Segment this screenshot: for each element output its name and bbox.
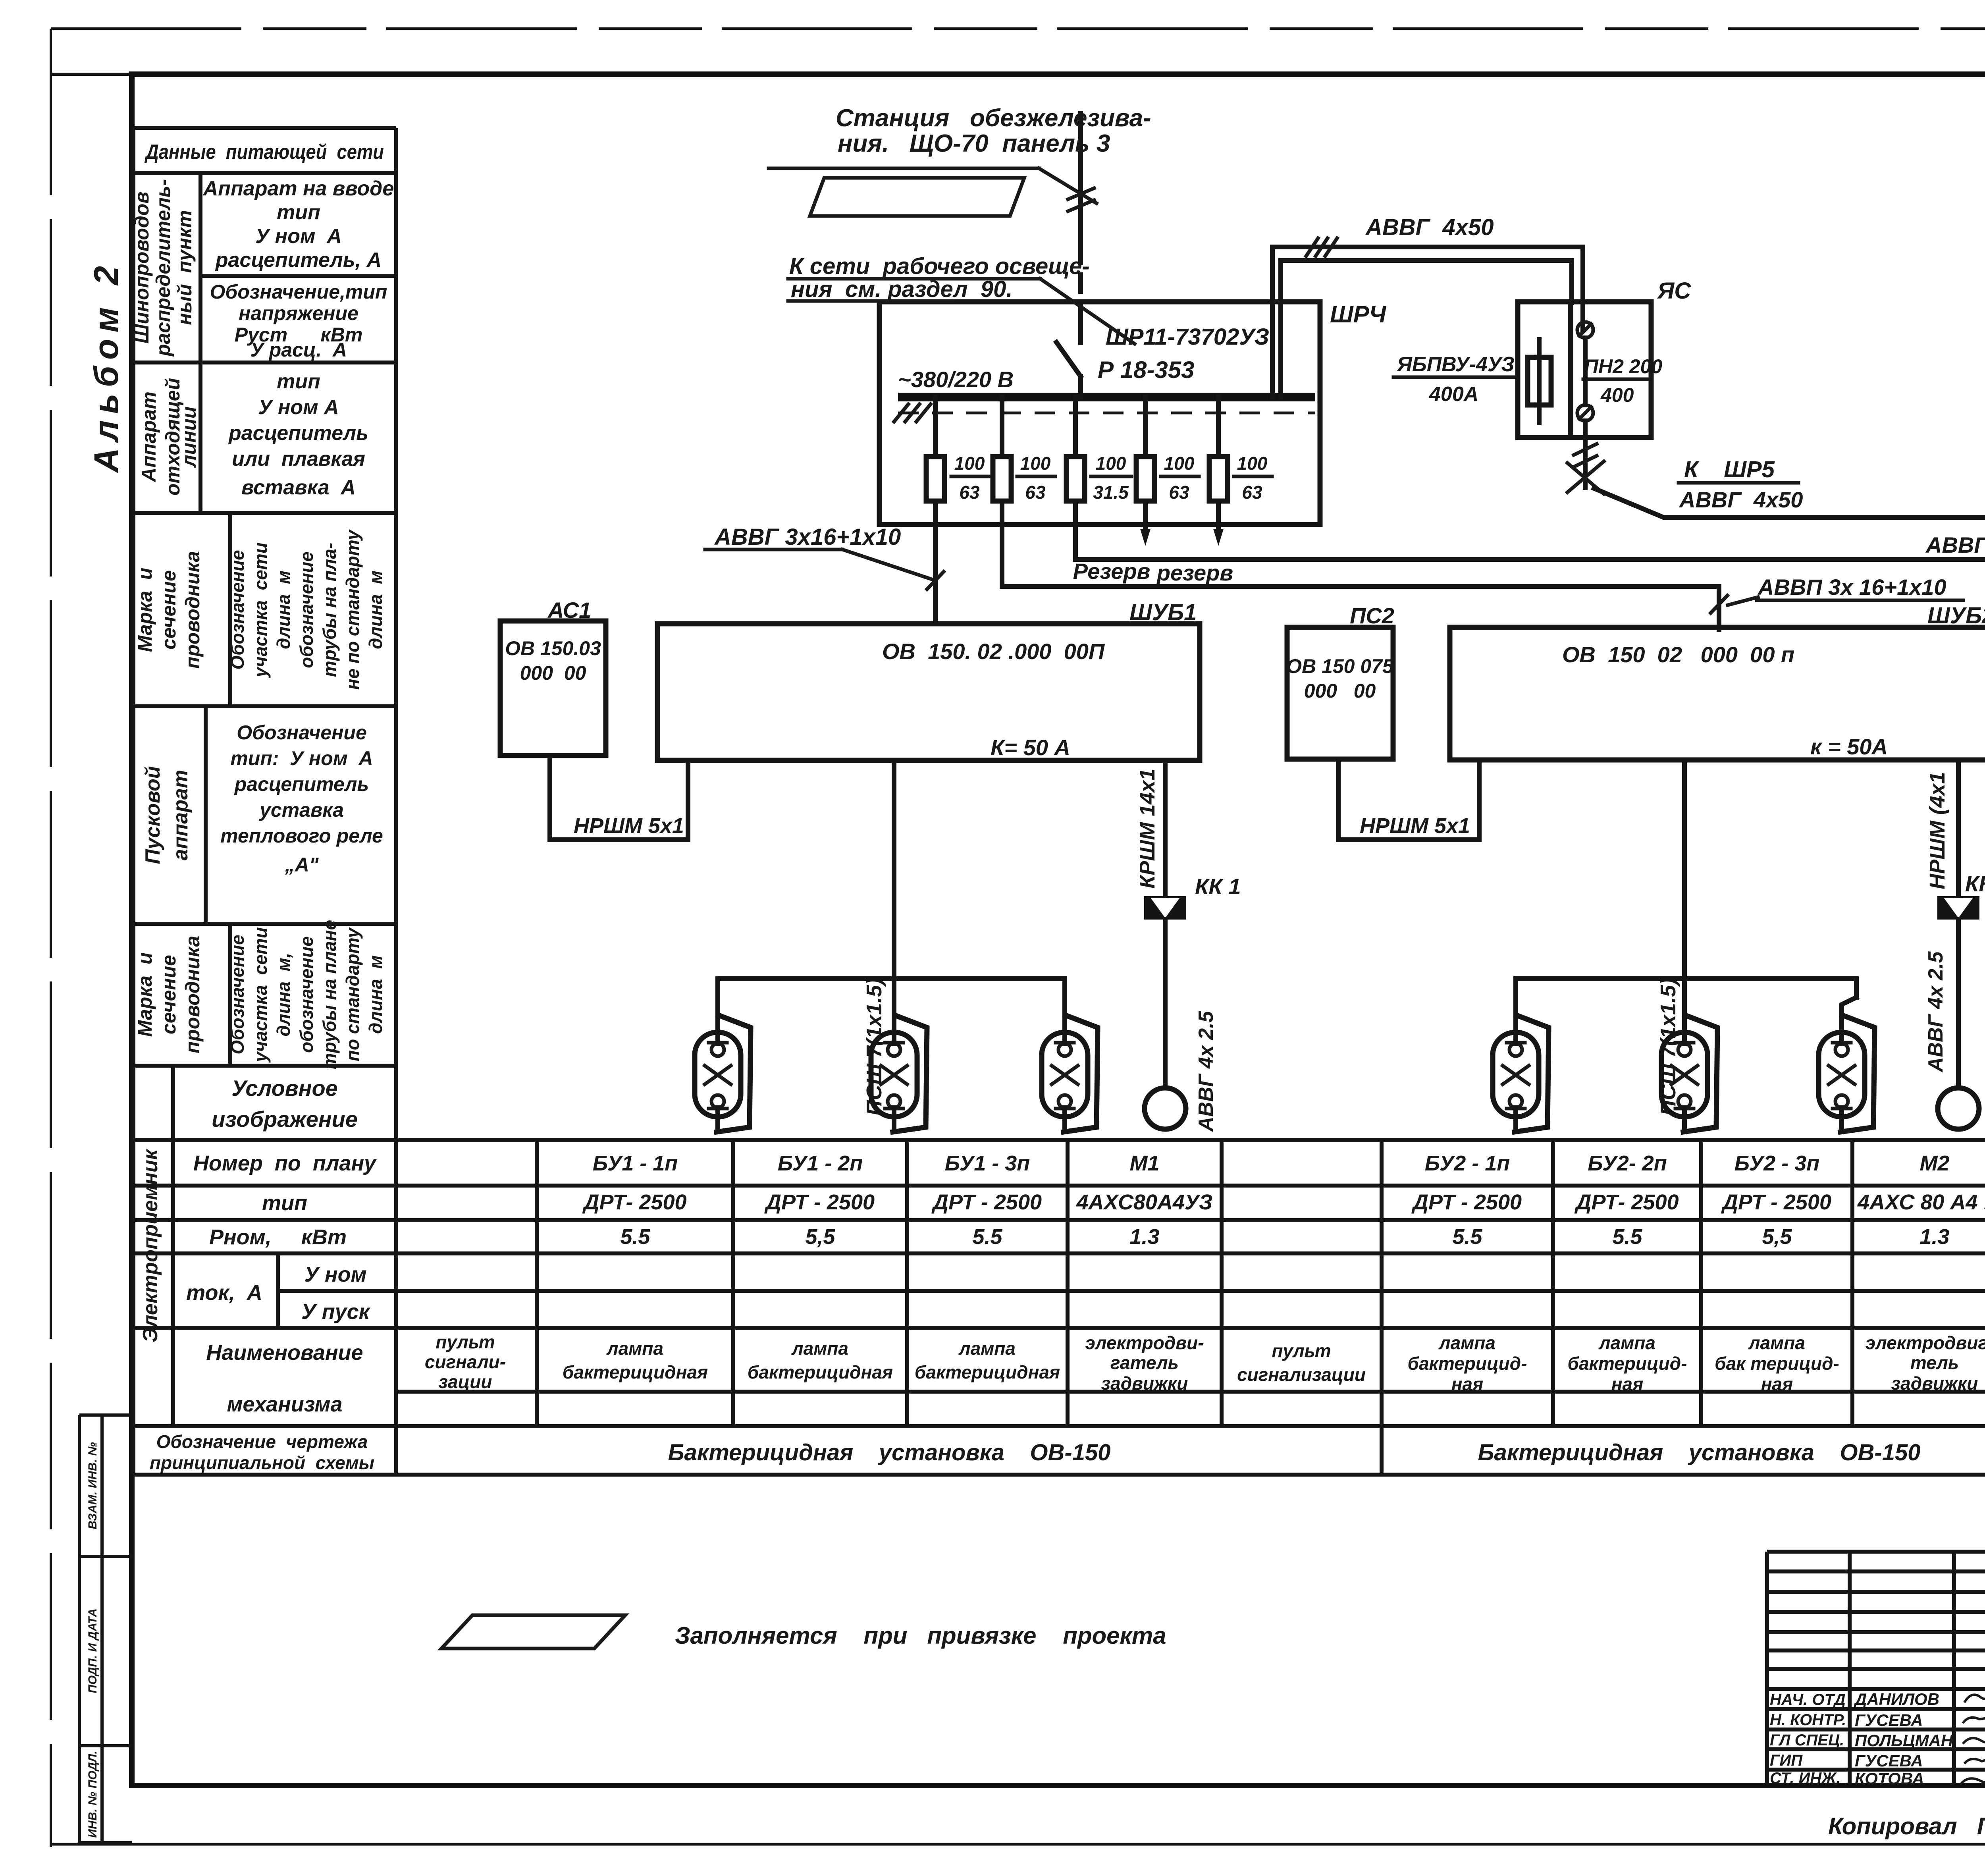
svg-text:не по стандарту: не по стандарту	[342, 529, 363, 690]
fuse 3 rating 100/31.5	[1093, 453, 1129, 503]
svg-text:бактерицид-: бактерицид-	[1407, 1353, 1527, 1374]
svg-text:АВВГ 4х2.5: АВВГ 4х2.5	[1925, 532, 1985, 557]
svg-text:по стандарту: по стандарту	[342, 927, 363, 1061]
svg-text:НРШМ (4х1: НРШМ (4х1	[1925, 772, 1949, 889]
svg-text:ПС2: ПС2	[1350, 603, 1394, 628]
lamp drop 6	[1842, 997, 1856, 1014]
svg-text:63: 63	[1169, 482, 1189, 503]
svg-text:длина м: длина м	[365, 571, 386, 649]
lamp drop 4	[1513, 979, 1518, 1014]
svg-text:4АХС 80 А4 УЗ: 4АХС 80 А4 УЗ	[1857, 1190, 1985, 1214]
terminal top	[1577, 322, 1593, 338]
svg-text:задвижки: задвижки	[1891, 1373, 1978, 1394]
svg-text:БУ2 - 3п: БУ2 - 3п	[1734, 1151, 1820, 1175]
svg-text:4АХС80А4УЗ: 4АХС80А4УЗ	[1076, 1190, 1213, 1214]
svg-text:Электроприемник: Электроприемник	[139, 1148, 162, 1342]
crossed arrows at cable end	[1567, 461, 1604, 494]
svg-text:КК 1: КК 1	[1195, 874, 1241, 899]
incoming feeder from ЩО-70	[1078, 113, 1083, 343]
svg-text:длина м: длина м	[365, 955, 386, 1034]
svg-text:лампа: лампа	[606, 1338, 663, 1359]
svg-text:БУ1 - 3п: БУ1 - 3п	[945, 1151, 1030, 1175]
lamp drop 1	[715, 979, 720, 1014]
wire: feeder to РТ301 (horizontal run)	[1075, 559, 1985, 656]
svg-text:СТ. ИНЖ.: СТ. ИНЖ.	[1770, 1770, 1840, 1787]
wire НРШМ 5х1 loop ПС2-ШУБ2	[1338, 759, 1479, 840]
svg-text:лампа: лампа	[1438, 1332, 1495, 1353]
svg-text:Резерв: Резерв	[1073, 559, 1151, 584]
svg-text:проводника: проводника	[181, 936, 204, 1054]
svg-text:тип: тип	[277, 370, 320, 393]
svg-text:М2: М2	[1919, 1151, 1949, 1175]
svg-text:сигнали-: сигнали-	[425, 1352, 506, 1372]
svg-text:Заполняется при привязке: Заполняется при привязке проекта	[675, 1622, 1166, 1649]
lamp БУ2-3п	[1819, 1012, 1875, 1132]
svg-text:длина м: длина м	[273, 571, 294, 649]
leader line from station note	[769, 167, 1039, 170]
phase slashes on busbar	[894, 404, 931, 422]
svg-text:5.5: 5.5	[620, 1225, 650, 1249]
lamp drop 3	[1062, 979, 1067, 1014]
svg-text:Р 18-353: Р 18-353	[1098, 357, 1195, 383]
cell: Обозначение тип: Уном А расцепитель уставка теплового реле А	[220, 721, 383, 876]
svg-text:напряжение: напряжение	[239, 302, 358, 324]
svg-text:ШРЧ: ШРЧ	[1330, 301, 1387, 328]
svg-text:ная: ная	[1611, 1374, 1643, 1394]
wire blade to busbar	[1078, 376, 1083, 397]
fuse ШРЧ-5 (reserve)	[1209, 397, 1228, 546]
svg-text:уставка: уставка	[258, 799, 344, 821]
svg-text:бактерицидная: бактерицидная	[915, 1362, 1060, 1382]
svg-text:АВВГ 3х16+1х10: АВВГ 3х16+1х10	[714, 524, 901, 550]
rotated label: Аппарат отходящей линии	[138, 378, 200, 496]
svg-text:длина м,: длина м,	[273, 953, 294, 1037]
cable mark on ШУБ2 feeder	[1711, 596, 1727, 613]
motor М2	[1938, 1088, 1979, 1129]
svg-text:бак терицид-: бак терицид-	[1715, 1353, 1839, 1374]
box ПС2	[1287, 627, 1393, 759]
stamp role labels	[1770, 1691, 1846, 1787]
svg-text:„А": „А"	[285, 854, 319, 876]
svg-text:Копировал Подлевская: Копировал Подлевская	[1828, 1813, 1985, 1839]
lamp branch БУ1	[718, 976, 1065, 981]
svg-text:АВВГ 4х 2.5: АВВГ 4х 2.5	[1924, 951, 1947, 1073]
svg-text:ГУСЕВА: ГУСЕВА	[1855, 1711, 1923, 1729]
svg-text:сечение: сечение	[158, 955, 180, 1034]
svg-text:Обозначение: Обозначение	[227, 935, 248, 1054]
svg-text:ДРТ - 2500: ДРТ - 2500	[1721, 1190, 1831, 1214]
svg-text:ДАНИЛОВ: ДАНИЛОВ	[1854, 1690, 1939, 1708]
cabinet ШРЧ box	[879, 302, 1320, 524]
svg-text:БУ1 - 2п: БУ1 - 2п	[778, 1151, 863, 1175]
svg-text:бактерицидная: бактерицидная	[748, 1362, 893, 1382]
svg-text:100: 100	[954, 453, 985, 474]
row Обозначение чертежа values	[668, 1436, 1985, 1465]
svg-text:~380/220 В: ~380/220 В	[898, 367, 1014, 392]
svg-text:резерв: резерв	[1156, 560, 1233, 585]
wire КРШМ 14х1 from ШУБ1	[1163, 760, 1168, 896]
row Наименование values	[425, 1332, 1985, 1396]
svg-text:Данные питающей сети: Данные питающей сети	[145, 141, 384, 164]
wire К ШР5	[1594, 488, 1985, 517]
svg-text:Условное: Условное	[231, 1076, 338, 1101]
fuse 2 rating 100/63	[1020, 453, 1051, 503]
svg-text:НРШМ 5х1: НРШМ 5х1	[574, 814, 684, 838]
svg-text:ная: ная	[1761, 1374, 1793, 1394]
svg-text:тип: тип	[262, 1191, 307, 1215]
lamp drop 5	[1682, 979, 1687, 1014]
svg-text:сигнализации: сигнализации	[1237, 1364, 1366, 1385]
svg-text:АВВГ 4х 2.5: АВВГ 4х 2.5	[1195, 1010, 1218, 1132]
svg-text:400А: 400А	[1429, 383, 1478, 406]
svg-text:АС1: АС1	[547, 598, 591, 623]
svg-text:трубы на плане: трубы на плане	[319, 920, 340, 1069]
lamp БУ1-3п	[1042, 1012, 1098, 1132]
svg-text:ПОДП. И ДАТА: ПОДП. И ДАТА	[86, 1608, 99, 1693]
left margin stamp strip	[79, 1415, 132, 1843]
svg-text:участка сети: участка сети	[250, 927, 271, 1063]
svg-text:линии: линии	[178, 407, 200, 468]
svg-text:распределитель-: распределитель-	[152, 179, 174, 357]
wire КК2 to М2	[1956, 920, 1961, 1088]
cell: Обозначение,тип напряжение	[210, 281, 387, 361]
svg-text:ОВ 150.03: ОВ 150.03	[505, 637, 601, 659]
cable mark on ШУБ1 feeder	[927, 572, 944, 589]
svg-text:электродви-: электродви-	[1085, 1332, 1204, 1353]
svg-text:тип: У ном А: тип: У ном А	[230, 747, 373, 769]
svg-text:ШУБ2: ШУБ2	[1927, 603, 1985, 629]
wire between terminals	[1583, 338, 1588, 405]
svg-text:ния. ЩО-70 панель 3: ния. ЩО-70 панель 3	[838, 130, 1110, 157]
svg-text:ДРТ - 2500: ДРТ - 2500	[931, 1190, 1042, 1214]
rotated label: Пусковой аппарат	[141, 766, 192, 864]
fuse 5 rating 100/63	[1237, 453, 1268, 503]
svg-text:У пуск: У пуск	[301, 1300, 371, 1324]
svg-text:ПОЛЬЦМАН: ПОЛЬЦМАН	[1855, 1731, 1954, 1750]
rotated label: Шинопроводов распределительный пункт	[131, 179, 196, 357]
svg-text:ШР11-73702УЗ: ШР11-73702УЗ	[1106, 324, 1269, 350]
svg-text:К сети рабочего освеще-: К сети рабочего освеще-	[789, 253, 1090, 279]
svg-text:Обозначение: Обозначение	[227, 550, 248, 669]
lamp БУ1-2п	[871, 1012, 927, 1132]
svg-text:механизма: механизма	[227, 1392, 342, 1416]
lamp БУ2-2п	[1661, 1012, 1717, 1132]
wire ПСШ drop from ШУБ1	[892, 760, 896, 979]
svg-text:Номер по плану: Номер по плану	[193, 1151, 377, 1175]
svg-text:обозначение: обозначение	[296, 936, 317, 1053]
svg-text:ОВ 150 02 000 00 п: ОВ 150 02 000 00 п	[1562, 642, 1794, 667]
svg-text:лампа: лампа	[791, 1338, 848, 1359]
svg-text:БУ2- 2п: БУ2- 2п	[1588, 1151, 1667, 1175]
svg-text:63: 63	[1242, 482, 1262, 503]
feeder break marks	[1068, 188, 1094, 211]
svg-text:Аппарат на вводе: Аппарат на вводе	[202, 177, 394, 200]
svg-text:ОВ 150 075: ОВ 150 075	[1286, 655, 1394, 677]
row Номер по плану values	[593, 1151, 1985, 1175]
svg-text:100: 100	[1237, 453, 1268, 474]
box ШУБ1	[657, 624, 1200, 760]
svg-text:ДРТ- 2500: ДРТ- 2500	[1574, 1190, 1679, 1214]
svg-text:5,5: 5,5	[1762, 1225, 1792, 1249]
fuse ШРЧ-2	[993, 397, 1011, 586]
svg-text:Рном, кВт: Рном, кВт	[209, 1225, 347, 1249]
wire below ЯС with break marks	[1583, 421, 1588, 488]
svg-text:АВВГ 4х50: АВВГ 4х50	[1679, 487, 1803, 512]
bottom-left parallelogram	[441, 1615, 625, 1648]
svg-text:Обозначение: Обозначение	[237, 721, 367, 744]
svg-text:изображение: изображение	[212, 1107, 358, 1132]
svg-text:Бактерицидная установка: Бактерицидная установка ОВ-150	[668, 1440, 1110, 1465]
svg-text:лампа: лампа	[958, 1338, 1016, 1359]
rotated label: Марка и сечение проводника (2)	[134, 936, 204, 1054]
rotated cell: Обозначение участка сети... (1)	[227, 529, 386, 690]
svg-text:ЯС: ЯС	[1657, 278, 1691, 304]
svg-text:принципиальной схемы: принципиальной схемы	[150, 1452, 374, 1473]
svg-text:БУ1 - 1п: БУ1 - 1п	[593, 1151, 678, 1175]
svg-text:ДРТ - 2500: ДРТ - 2500	[764, 1190, 875, 1214]
svg-text:ГУСЕВА: ГУСЕВА	[1855, 1751, 1923, 1770]
svg-text:к = 50А: к = 50А	[1810, 734, 1888, 759]
svg-text:тип: тип	[277, 201, 320, 224]
svg-text:сечение: сечение	[158, 570, 180, 650]
fuse ШРЧ-3	[1066, 397, 1085, 559]
ЯС box	[1518, 302, 1651, 438]
svg-text:ЯБПВУ-4УЗ·: ЯБПВУ-4УЗ·	[1396, 353, 1521, 376]
svg-text:или плавкая: или плавкая	[232, 447, 365, 470]
svg-text:5.5: 5.5	[972, 1225, 1002, 1249]
top band line	[51, 73, 1985, 76]
svg-text:тель: тель	[1910, 1352, 1959, 1373]
svg-text:ВЗАМ. ИНВ. №: ВЗАМ. ИНВ. №	[86, 1442, 99, 1529]
svg-text:пульт: пульт	[436, 1332, 495, 1352]
svg-text:100: 100	[1096, 453, 1126, 474]
motor М1	[1145, 1088, 1186, 1129]
svg-text:ДРТ - 2500: ДРТ - 2500	[1411, 1190, 1522, 1214]
svg-text:К ШР5: К ШР5	[1684, 457, 1775, 482]
svg-text:зации: зации	[439, 1371, 492, 1392]
project-binding parallelogram (top)	[810, 178, 1024, 216]
svg-text:лампа: лампа	[1598, 1332, 1655, 1353]
svg-text:БУ2 - 1п: БУ2 - 1п	[1425, 1151, 1510, 1175]
svg-text:АВВГ 4х50: АВВГ 4х50	[1365, 214, 1494, 240]
svg-text:ИНВ. № ПОДЛ.: ИНВ. № ПОДЛ.	[86, 1751, 99, 1837]
cable АВВГ 4х50 to ЯС	[1272, 247, 1583, 397]
svg-text:НАЧ. ОТД: НАЧ. ОТД	[1770, 1691, 1846, 1708]
svg-text:Станция обезжелезива-: Станция обезжелезива-	[836, 104, 1151, 132]
svg-text:000 00: 000 00	[520, 662, 586, 684]
svg-text:У ном А: У ном А	[258, 396, 339, 419]
fuse 1 rating 100/63	[954, 453, 985, 503]
svg-text:400: 400	[1600, 384, 1634, 406]
wire НРШМ 5х1 loop АС1-ШУБ1	[550, 756, 688, 840]
lamp БУ2-1п	[1493, 1012, 1549, 1132]
svg-text:трубы на пла-: трубы на пла-	[319, 543, 340, 677]
svg-text:КРШМ 14х1: КРШМ 14х1	[1135, 769, 1159, 889]
svg-text:100: 100	[1020, 453, 1051, 474]
svg-text:расцепитель: расцепитель	[234, 773, 369, 795]
rotated label: Марка и сечение проводника (1)	[134, 551, 204, 669]
svg-text:ная: ная	[1451, 1374, 1483, 1394]
switch blade on input	[1056, 342, 1081, 376]
svg-text:Бактерицидная установка: Бактерицидная установка ОВ-150	[1478, 1440, 1920, 1465]
svg-text:Шинопроводов: Шинопроводов	[131, 191, 153, 343]
svg-text:Обозначение чертежа: Обозначение чертежа	[156, 1431, 368, 1452]
svg-text:КК2: КК2	[1965, 871, 1985, 896]
svg-text:100: 100	[1164, 453, 1195, 474]
svg-text:Марка и: Марка и	[134, 952, 156, 1037]
svg-text:пульт: пульт	[1272, 1340, 1331, 1361]
thermal relay КК2	[1937, 896, 1979, 920]
svg-text:ГЛ СПЕЦ.: ГЛ СПЕЦ.	[1770, 1731, 1844, 1749]
ЯС fuse compartment divider	[1568, 302, 1573, 438]
svg-text:5.5: 5.5	[1612, 1225, 1642, 1249]
svg-text:У ном А: У ном А	[255, 225, 342, 248]
svg-text:1.3: 1.3	[1919, 1225, 1949, 1249]
fuse ШРЧ-1	[926, 397, 944, 624]
row Рном values	[620, 1225, 1985, 1249]
wire НРШМ 14х1 from ШУБ2	[1956, 760, 1961, 896]
svg-text:проводника: проводника	[181, 551, 204, 669]
svg-text:ный пункт: ный пункт	[173, 210, 196, 325]
wire КК1 to М1	[1163, 920, 1168, 1088]
terminal bottom	[1577, 405, 1593, 421]
fuse 4 rating 100/63	[1164, 453, 1195, 503]
svg-text:ОВ 150. 02 .000 00П: ОВ 150. 02 .000 00П	[882, 639, 1105, 664]
svg-text:Пусковой: Пусковой	[141, 766, 164, 864]
thermal relay КК1	[1144, 896, 1186, 920]
underlines and leader	[788, 277, 1040, 281]
svg-text:бактерицидная: бактерицидная	[563, 1362, 708, 1382]
stamp names	[1854, 1690, 1954, 1788]
svg-text:обозначение: обозначение	[296, 551, 317, 668]
box АС1	[500, 621, 606, 756]
svg-text:аппарат: аппарат	[169, 770, 192, 860]
svg-text:5.5: 5.5	[1452, 1225, 1482, 1249]
svg-text:ДРТ- 2500: ДРТ- 2500	[582, 1190, 686, 1214]
rotated cell: Обозначение участка сети... (2)	[227, 920, 386, 1069]
svg-text:К= 50 А: К= 50 А	[991, 735, 1070, 760]
svg-text:бактерицид-: бактерицид-	[1567, 1353, 1687, 1374]
svg-text:000 00: 000 00	[1304, 680, 1376, 702]
svg-text:1.3: 1.3	[1129, 1225, 1159, 1249]
svg-text:63: 63	[1025, 482, 1046, 503]
svg-text:У расц. А: У расц. А	[250, 339, 347, 361]
svg-text:участка сети: участка сети	[250, 542, 271, 678]
svg-text:У ном: У ном	[304, 1263, 366, 1286]
svg-text:М1: М1	[1129, 1151, 1159, 1175]
fuse in ЯС	[1528, 339, 1551, 423]
svg-text:КОТОВА: КОТОВА	[1855, 1769, 1924, 1788]
svg-text:ШУБ1: ШУБ1	[1129, 600, 1197, 625]
svg-text:ГИП: ГИП	[1770, 1752, 1803, 1769]
svg-text:63: 63	[959, 482, 980, 503]
svg-text:теплового реле: теплового реле	[220, 825, 383, 847]
lamp branch БУ2	[1516, 979, 1856, 997]
svg-text:ПН2 200: ПН2 200	[1584, 355, 1662, 378]
fuse ШРЧ-4 (reserve)	[1136, 397, 1154, 546]
svg-text:лампа: лампа	[1748, 1332, 1805, 1353]
svg-text:Марка и: Марка и	[134, 568, 156, 652]
svg-text:расцепитель, А: расцепитель, А	[215, 249, 382, 272]
svg-text:Аппарат: Аппарат	[138, 391, 160, 483]
box ШУБ2	[1450, 627, 1985, 760]
lamp drop 2	[892, 979, 896, 1014]
svg-text:Наименование: Наименование	[206, 1341, 363, 1365]
svg-text:31.5: 31.5	[1093, 482, 1129, 503]
svg-text:задвижки: задвижки	[1101, 1373, 1188, 1394]
cell: тип Уном А расцепитель или плавкая вставка А	[228, 370, 368, 499]
phase slashes on cable	[1306, 238, 1337, 256]
svg-text:Обозначение,тип: Обозначение,тип	[210, 281, 387, 303]
wire: feeder to ШУБ2 (horizontal run)	[1002, 586, 1719, 629]
cell: Аппарат на вводе	[202, 177, 394, 272]
svg-text:Н. КОНТР.: Н. КОНТР.	[1770, 1711, 1846, 1729]
lamp БУ1-1п	[695, 1012, 751, 1132]
svg-text:НРШМ 5х1: НРШМ 5х1	[1360, 814, 1470, 838]
stamp signatures	[1961, 1692, 1985, 1795]
row тип values	[582, 1190, 1985, 1214]
svg-text:вставка А: вставка А	[241, 476, 356, 499]
svg-text:расцепитель: расцепитель	[228, 422, 368, 445]
wire ПСШ drop from ШУБ2	[1682, 760, 1687, 979]
svg-text:АВВП 3х 16+1х10: АВВП 3х 16+1х10	[1757, 575, 1946, 600]
N conductor dashed	[898, 412, 1315, 415]
svg-text:5,5: 5,5	[805, 1225, 835, 1249]
busbar 380/220V in ШРЧ	[898, 393, 1315, 401]
svg-text:ток, А: ток, А	[186, 1281, 262, 1305]
svg-text:гатель: гатель	[1110, 1352, 1179, 1373]
svg-text:электродвига-: электродвига-	[1866, 1332, 1985, 1353]
